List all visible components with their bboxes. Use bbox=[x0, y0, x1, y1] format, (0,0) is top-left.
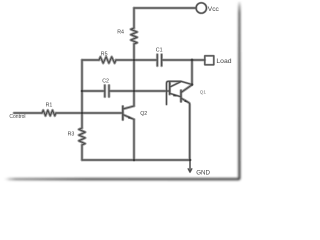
svg-text:Q2: Q2 bbox=[140, 111, 147, 117]
svg-text:C2: C2 bbox=[102, 79, 109, 85]
svg-text:Vcc: Vcc bbox=[208, 6, 220, 13]
svg-text:GND: GND bbox=[196, 170, 210, 177]
svg-text:Q1: Q1 bbox=[200, 90, 207, 95]
svg-text:Control: Control bbox=[9, 114, 25, 120]
svg-text:R4: R4 bbox=[117, 29, 124, 35]
svg-text:R1: R1 bbox=[46, 102, 53, 108]
svg-text:Load: Load bbox=[216, 58, 231, 65]
svg-text:R5: R5 bbox=[101, 51, 108, 57]
svg-text:R3: R3 bbox=[68, 131, 75, 137]
svg-text:C1: C1 bbox=[156, 47, 163, 53]
